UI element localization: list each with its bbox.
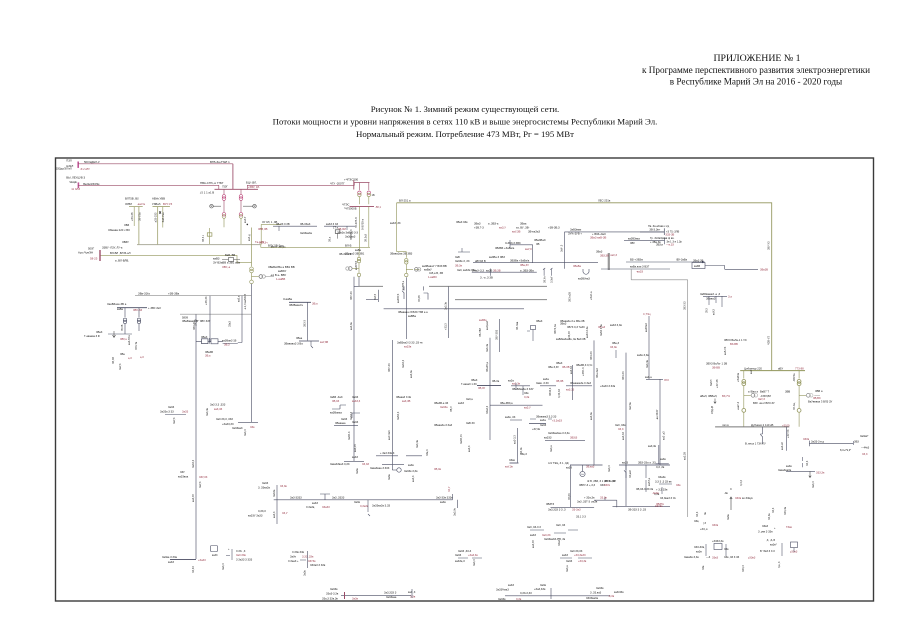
svg-text:ваЗУЗ,В: ваЗУЗ,В — [355, 260, 358, 270]
switch дуб — [760, 434, 762, 437]
svg-text:ЗВУ-ЗВЗ: ЗВУ-ЗВЗ — [496, 329, 499, 340]
wire труженик stub — [515, 383, 517, 390]
svg-text:ЗаЗВ-З: ЗаЗВ-З — [348, 431, 351, 440]
transformer ЧГЭС T2 — [367, 191, 370, 194]
svg-text:З,Зв: З,Зв — [516, 597, 522, 601]
svg-text:ЗВ-Зав: ЗВ-Зав — [516, 321, 519, 330]
svg-text:ваЗЗ: ваЗЗ — [508, 583, 514, 587]
svg-text:З,Зв: З,Зв — [410, 594, 416, 598]
svg-text:ваЗЗ,а: ваЗЗ,а — [647, 477, 651, 486]
svg-text:ЗЗУ: ЗЗУ — [180, 470, 185, 474]
svg-text:ЗВававаЗа З ЗаЗ: ЗВававаЗа З ЗаЗ — [570, 381, 591, 385]
svg-text:+ЗВ,ЗЗ: +ЗВ,ЗЗ — [205, 296, 208, 305]
arrow влу — [730, 497, 732, 510]
svg-text:ваУ: ваУ — [750, 369, 753, 374]
wire long 499 — [274, 499, 453, 501]
wire Т2b tail — [798, 413, 800, 427]
wire AT2 to 220 bus — [240, 218, 242, 244]
svg-text:ЗЗв,: ЗЗв, — [694, 519, 700, 523]
svg-text:ЗВЗУ: ЗВЗУ — [122, 240, 129, 244]
svg-text:ЧЕЦЕ: ЧЕЦЕ — [69, 180, 77, 184]
svg-text:ЗЗ,З: ЗЗ,З — [862, 452, 868, 456]
generator Цибикнур G1 — [751, 393, 755, 397]
svg-text:а ,ВЛ-ВЛВ,: а ,ВЛ-ВЛВ, — [115, 258, 129, 262]
wire band elbow — [366, 299, 378, 301]
svg-text:ЗаУ,З: ЗаУ,З — [758, 397, 765, 401]
wire кокш dash — [802, 457, 804, 467]
svg-text:ваЗЗ: ваЗЗ — [312, 501, 318, 505]
svg-text:ЗВЗ,ЗВ: ЗВЗ,ЗВ — [600, 253, 609, 257]
wire дуб feeder1 — [760, 427, 762, 444]
svg-text:З,в ,З: З,в ,З — [778, 561, 781, 568]
wire upper link — [510, 244, 533, 246]
wire bus 506 east — [613, 505, 671, 507]
wire vert 565 — [564, 232, 566, 269]
svg-text:ЗВаЗВ-а ЗЗ: ЗВаЗВ-а ЗЗ — [434, 401, 449, 405]
svg-text:ваЗЗУ ЗаЗЗ: ваЗЗУ ЗаЗЗ — [248, 513, 263, 517]
svg-text:ВЛУ 5В-Зap: ВЛУ 5В-Зap — [268, 243, 284, 247]
svg-text:ЗаЗ ,ЗЗЗЗ: ЗаЗ ,ЗЗЗЗ — [332, 496, 345, 500]
svg-text:ЗВЗ-ЗЗ: ЗВЗ-ЗЗ — [590, 351, 593, 360]
svg-text:ляп в: ляп в — [722, 424, 729, 427]
svg-text:ЗВЗ-ЗЗ: ЗВЗ-ЗЗ — [622, 371, 625, 380]
wire sect 209 — [209, 228, 211, 244]
svg-text:ваЗЗ: ваЗЗ — [352, 455, 358, 459]
substation box 1 — [202, 339, 209, 344]
svg-text:ЗаУ,З: ЗаУ,З — [119, 363, 122, 370]
wire vert 660 — [659, 379, 661, 465]
svg-text:+ЗЗ,З: +ЗЗ,З — [445, 323, 448, 330]
wire gen branch chges — [352, 268, 359, 270]
svg-text:ЗВаЗ ЗЗв: ЗВаЗ ЗЗв — [456, 220, 468, 224]
wire ключ drops — [709, 296, 722, 307]
svg-text:аВУЗЗ В: аВУЗЗ В — [475, 259, 486, 263]
svg-text:ваЗ-З,З: ваЗ-З,З — [514, 435, 517, 444]
svg-text:ЗЗ,Зв: ЗЗ,Зв — [280, 484, 287, 488]
svg-text:ЗВававаЗ З,З ЗЗ: ЗВававаЗ З,З ЗЗ — [536, 414, 557, 418]
svg-text:,З, ,З,/З: ,З, ,З,/З — [766, 538, 775, 542]
svg-text:Та-а7В: Та-а7В — [255, 240, 264, 244]
svg-text:ЗВУ-ЗЗ: ЗВУ-ЗЗ — [133, 308, 143, 312]
svg-text:ваЗв: ваЗв — [786, 464, 792, 468]
svg-text:ВаВЛ: ВаВЛ — [710, 379, 713, 386]
svg-text:+ВЗ-ЗВ: +ВЗ-ЗВ — [131, 212, 134, 221]
svg-text:ЗВ-З,Зв+: ЗВ-З,Зв+ — [649, 227, 660, 231]
svg-text:ЗаВ: ЗаВ — [455, 255, 460, 259]
svg-text:ЗВ-УЗа: ЗВ-УЗа — [138, 212, 141, 221]
transformer Цибикнур АТ2 — [797, 380, 801, 384]
svg-text:Ж В ,ЗВЗ, З 1 ,ЗЛ 1т ,ЗЛ: Ж В ,ЗВЗ, З 1 ,ЗЛ 1т ,ЗЛ — [587, 479, 616, 483]
svg-text:ЗЗ,Ув: ЗЗ,Ув — [520, 447, 523, 454]
wire chain2 mid — [405, 264, 407, 273]
svg-text:а,З: а,З — [140, 355, 144, 359]
wire ЧГЭС down 1 — [358, 206, 360, 251]
svg-text:Цибикнур 220: Цибикнур 220 — [744, 367, 762, 371]
transformer Советский Т2 — [250, 280, 254, 284]
svg-text:к Программе перспективного раз: к Программе перспективного развития элек… — [642, 65, 870, 75]
wire trunk 687 south — [687, 280, 689, 517]
wire орш bottom — [108, 333, 132, 335]
svg-text:ЗаЗ,Ув: ЗаЗ,Ув — [454, 507, 457, 516]
svg-text:ваЗ,Зв: ваЗ,Зв — [410, 370, 413, 378]
wire vert 532 — [532, 245, 534, 263]
svg-text:ЗЗЗ,Зв: ЗЗЗ,Зв — [816, 471, 825, 475]
svg-text:ЗаЗ,ЗЗЗ З З ,З: ЗаЗ,ЗЗЗ З З ,З — [548, 507, 566, 511]
svg-text:ваЗ,ЗЗ: ваЗ,ЗЗ — [622, 432, 625, 440]
svg-text:+ З,З ЗЗв: + З,З ЗЗв — [656, 487, 668, 491]
wire v658 — [656, 445, 669, 464]
generator chain2 G — [415, 268, 419, 272]
svg-text:З ЗаЗЗ З ЗЗЗ: З ЗаЗЗ З ЗЗЗ — [236, 557, 253, 561]
svg-text:аЗЗ-ЗЗЗ: аЗЗ-ЗЗЗ — [155, 212, 158, 222]
svg-text:З-В,а В, ЗВ: З-В,а В, ЗВ — [429, 271, 443, 275]
svg-text:ваЗ,ЗЗ: ваЗ,ЗЗ — [566, 387, 575, 391]
svg-text:ЗВаЗВ,а: ЗВаЗВ,а — [486, 362, 489, 372]
wire vert НТ3 — [241, 296, 243, 343]
svg-text:ЗУ,ЗВ: ЗУ,ЗВ — [418, 295, 421, 302]
svg-text:-ваУ/а: -ваУ/а — [137, 202, 145, 206]
svg-text:ЗВа: ЗВа — [120, 352, 125, 356]
svg-text:ваУ,ваЗ: ваУ,ваЗ — [486, 321, 489, 330]
svg-text:ЗЗ,ЗваЗ З Ув: ЗЗ,ЗваЗ З Ув — [660, 496, 676, 500]
wire line 455 — [376, 455, 422, 457]
svg-text:+ВаВЗа: +ВаВЗа — [737, 372, 740, 382]
svg-text:ЗЗ7Зв: ЗЗ7Зв — [655, 504, 663, 508]
svg-text:ЗаЗЗваЗЗ-З З ,Зв: ЗаЗЗваЗЗ-З З ,Зв — [544, 537, 566, 541]
bus Советский — [238, 421, 258, 423]
node black dot — [247, 224, 249, 226]
svg-text:ЧГУ -2007Г: ЧГУ -2007Г — [330, 182, 345, 186]
svg-text:ЗЗвЗ: ЗЗвЗ — [229, 321, 232, 327]
svg-text:З ЗЗв ЗЗв: З ЗЗв ЗЗв — [292, 550, 305, 554]
wire Помары 220 link — [261, 224, 281, 244]
svg-text:ЗаЗ,З: ЗаЗ,З — [473, 559, 476, 566]
svg-text:ЗЗЗ-ЗЗв,: ЗЗЗ-ЗЗв, — [694, 545, 705, 549]
svg-text:ЗЗ,У: ЗЗ,У — [282, 511, 288, 515]
bus Ошла — [382, 463, 404, 465]
bus ПС Заря 500kV tick — [77, 162, 79, 168]
svg-text:З,ЗЗ,ЗЗ: З,ЗЗ,ЗЗ — [558, 389, 561, 398]
svg-text:ЗУ-За,: ЗУ-За, — [793, 402, 796, 410]
wire box2 links — [211, 341, 243, 343]
svg-text:Пв. Зв-аЗзвв х 2д: Пв. Зв-аЗзвв х 2д — [648, 224, 670, 228]
svg-text:ЗЗ,У: ЗЗ,У — [448, 486, 451, 492]
svg-text:-ваЗЗ: -ваЗЗ — [636, 270, 643, 274]
svg-text:ПРИЛОЖЕНИЕ № 1: ПРИЛОЖЕНИЕ № 1 — [713, 53, 800, 64]
svg-text:ВЫ ,ЛЕУЦУВ З: ВЫ ,ЛЕУЦУВ З — [66, 176, 85, 180]
svg-text:ЗаЗЗ%ваЗ: ЗаЗЗ%ваЗ — [496, 587, 509, 591]
svg-text:уЗЗвЗ: уЗЗвЗ — [748, 555, 756, 559]
svg-text:773-88: 773-88 — [795, 367, 804, 371]
bus ЧГЭС 220 кВ — [350, 205, 375, 207]
svg-text:ваУ-ЗаЗ: ваУ-ЗаЗ — [388, 430, 391, 440]
bus ТЭЦ-1 — [570, 464, 603, 466]
svg-text:З-ЗВЗ,З ЗВЗ: З-ЗВЗ,З ЗВЗ — [505, 241, 521, 245]
svg-text:ЗВУ,а: ЗВУ,а — [120, 337, 127, 341]
svg-text:ЗЗаЗЗ: ЗЗаЗЗ — [322, 505, 330, 509]
svg-text:ваЗ-У: ваЗ-У — [244, 216, 247, 223]
wire navy band — [384, 308, 524, 310]
svg-text:ЗВЗЗ,З: ЗВЗЗ,З — [549, 387, 552, 396]
svg-text:500 ЕДЕЛ-У.: 500 ЕДЕЛ-У. — [84, 160, 100, 164]
svg-text:ЗаЗВ,Ул: ЗаЗВ,Ул — [460, 434, 463, 444]
bus 649 — [646, 378, 663, 380]
svg-text:ЗЗвЗ: ЗЗвЗ — [762, 524, 769, 528]
svg-text:ЗВаЗ: ЗВаЗ — [596, 250, 603, 254]
box воронц — [714, 544, 722, 550]
svg-text:ЗЗ,З: ЗЗ,З — [772, 507, 775, 513]
svg-text:ваВ-УЗ: ваВ-УЗ — [724, 346, 727, 355]
wire long right tick — [453, 494, 458, 508]
svg-text:ЗВ,З 1: ЗВ,З 1 — [202, 234, 205, 242]
svg-text:ваЗВ: ваЗВ — [694, 264, 700, 268]
svg-text:ЗВУ,-а: ЗВУ,-а — [222, 265, 231, 269]
box symbol left — [229, 258, 234, 262]
svg-text:ВаВ7 Т: ВаВ7 Т — [760, 390, 769, 394]
svg-text:Арз./ЧувЭН: Арз./ЧувЭН — [78, 250, 93, 254]
svg-text:ЗВаа: ЗВаа — [296, 336, 303, 340]
wire Илеть drop — [368, 500, 370, 516]
svg-text:*ЧГ5000Б: *ЧГ5000Б — [344, 207, 357, 211]
svg-text:ваЗ,У: ваЗ,У — [499, 225, 506, 229]
svg-text:ЗВаЗВаЗ: ЗВаЗВаЗ — [534, 238, 546, 242]
svg-text:ЗЗв: ЗЗв — [702, 565, 705, 570]
svg-text:ЗаЗЗв З ,ЗЗ: ЗаЗЗв З ,ЗЗ — [455, 259, 470, 263]
svg-text:ЗаЗ,З: ЗаЗ,З — [244, 429, 247, 436]
wire link y226 b — [324, 225, 355, 227]
svg-text:ЗаЗЗваЗа: ЗаЗЗваЗа — [300, 231, 313, 235]
svg-text:ЗаВЗ -ЗаЗ: ЗаВЗ -ЗаЗ — [330, 395, 343, 399]
wire ВЛ-500 Помары line — [78, 185, 219, 189]
wire 500kV vertical drop — [232, 164, 234, 190]
svg-text:Рисунок № 1. Зимний режим суще: Рисунок № 1. Зимний режим существующей с… — [371, 104, 560, 114]
svg-text:ЗВа-ЗаЗ: ЗВа-ЗаЗ — [596, 368, 599, 378]
svg-text:ЗаЗ,а: ЗаЗ,а — [566, 565, 569, 572]
bus Килемары — [289, 301, 311, 303]
svg-text:ЗВаЗ: ЗВаЗ — [536, 319, 543, 323]
wire chain2 gen branch — [406, 268, 419, 270]
svg-text:1-ваВЗ: 1-ваВЗ — [428, 275, 437, 279]
box Кузнецово — [531, 326, 536, 330]
svg-text:ЗВ7З З,З 7аЗЗ: ЗВ7З З,З 7аЗЗ — [567, 325, 585, 329]
svg-text:ВаВ, ВВ: ВаВ, ВВ — [225, 253, 235, 257]
svg-text:ЗВПУ-З +,З,З: ЗВПУ-З +,З,З — [579, 483, 595, 487]
svg-text:ЗЗаЗ,З: ЗЗаЗ,З — [558, 537, 561, 546]
svg-text:ЗЗЗв: ЗЗЗв — [803, 437, 810, 441]
wire ЧГЭС-trunk link — [396, 203, 398, 252]
svg-text:ЗаВЗ З Зв: ЗаВЗ З Зв — [600, 324, 603, 336]
svg-text:ЗВЗ,в: ЗВЗ,в — [656, 243, 663, 247]
generator ТЭЦ-1 G — [580, 471, 585, 476]
svg-text:ваЗЗ: ваЗЗ — [168, 560, 174, 564]
svg-text:ВЛ-ВЛ ,ВЛ В-аЛ: ВЛ-ВЛ ,ВЛ В-аЛ — [110, 251, 131, 255]
svg-text:ЗВ-ЗВЗ: ЗВ-ЗВЗ — [478, 328, 482, 337]
transformer AT2 — [239, 195, 243, 199]
wire Цибикнур Т1 stem — [743, 371, 745, 379]
svg-text:ЗВЗВЗ +ЗаВа/а: ЗВЗВЗ +ЗаВа/а — [495, 246, 515, 250]
svg-text:ваЗЗ ,ЗЗ: ваЗЗ ,ЗЗ — [390, 221, 401, 225]
generator ЧГЭС G — [349, 267, 353, 271]
wire box1 links — [196, 338, 211, 344]
svg-text:ЗЗЗаЗ З ЗЗв: ЗЗЗаЗ З ЗЗв — [310, 563, 326, 567]
wire trunk 594 — [593, 340, 595, 464]
transformer ЧГЭС T1 — [358, 191, 361, 194]
svg-text:ЗаЗЗа: ЗаЗЗа — [440, 405, 448, 409]
svg-text:ваЗв: ваЗв — [440, 500, 446, 504]
svg-text:В "ЗвЗ З З З: В "ЗвЗ З З З — [760, 549, 775, 553]
wire trunk 490 — [489, 338, 491, 440]
svg-text:Нормальный режим. Потребление: Нормальный режим. Потребление 473 МВт, Р… — [356, 129, 574, 139]
bus Дубники 110кВ — [715, 426, 789, 428]
svg-text:ваЗ,Зв: ваЗ,Зв — [648, 444, 657, 448]
wire 220 feeder a2 — [138, 207, 140, 245]
svg-text:ЗаваЗЗваЗ З,ЗЗ: ЗаваЗЗваЗ З,ЗЗ — [330, 462, 350, 466]
svg-text:+ЧГЭС500: +ЧГЭС500 — [344, 178, 359, 182]
svg-text:ваУ,З: ваУ,З — [713, 309, 716, 315]
wire Т1b tail — [743, 412, 745, 427]
transformer chain 2a — [405, 259, 408, 262]
wire завод feeder rows — [472, 271, 537, 273]
svg-text:ЗВЗ-аЗВ: ЗВЗ-аЗВ — [569, 292, 572, 302]
svg-text:+ЗВУ-З: +ЗВУ-З — [582, 367, 585, 376]
bus Цибикнур 220 — [740, 370, 805, 372]
wire ВЛ-500 Заря line — [78, 163, 233, 165]
svg-text:З,ЗЗ ,ЗЗв: З,ЗЗ ,ЗЗв — [302, 554, 314, 558]
svg-text:АТДЦВ: АТДЦВ — [711, 406, 714, 414]
svg-text:ваЗВ: ваЗВ — [486, 268, 493, 272]
svg-text:+ЗЗ,ЗаЗЗ: +ЗЗ,ЗаЗЗ — [574, 553, 586, 557]
wire Цибикнур Т2 mid — [798, 386, 800, 409]
svg-text:ЗаЗ,ЗЗЗ З: ЗаЗ,ЗЗЗ З — [384, 590, 397, 594]
svg-text:ПЗЛ: ПЗЛ — [66, 158, 72, 162]
svg-text:ЗВаЗВ: ЗВаЗВ — [760, 268, 768, 272]
svg-text:ЗВа,З: ЗВа,З — [612, 341, 619, 345]
svg-text:ЗаЗ,З: ЗаЗ,З — [812, 481, 815, 488]
svg-text:ваЗ,ЗУ: ваЗ,ЗУ — [192, 494, 195, 502]
svg-text:Т-аваава З Ф: Т-аваава З Ф — [84, 334, 100, 338]
svg-text:ЗЗ,З: ЗЗ,З — [806, 460, 809, 466]
svg-text:ваЗЗ.З.Зв: ваЗЗ.З.Зв — [586, 326, 589, 338]
wire Килемары down — [307, 302, 309, 340]
svg-text:ВЗ/-+ЗВЗм: ВЗ/-+ЗВЗм — [630, 258, 643, 262]
svg-text:ЗаЗЗ: ЗаЗЗ — [168, 405, 175, 409]
svg-text:З ,ЗЗ,ваЗ: З ,ЗЗ,ваЗ — [590, 590, 602, 594]
wire chain bot — [354, 277, 359, 287]
wire Красн tick — [320, 494, 330, 500]
svg-text:ЗВававаЗ З Ва: ЗВававаЗ З Ва — [284, 342, 303, 346]
svg-text:ЗаЗ,а: ЗаЗ,а — [550, 445, 553, 452]
svg-text:ЗВ,ЗВ: ЗВ,ЗВ — [556, 379, 564, 383]
svg-text:ваЗ,Зв: ваЗ,Зв — [590, 412, 593, 420]
svg-text:4-9 ТЭЦ, З 1 ,ЗД: 4-9 ТЭЦ, З 1 ,ЗД — [548, 461, 569, 465]
wire bottom tick3 — [550, 588, 552, 599]
arrow down sym — [714, 399, 716, 404]
svg-text:ЗаВЗ,З: ЗаВЗ,З — [397, 411, 400, 420]
svg-text:ваЗ,Зв: ваЗ,Зв — [512, 382, 521, 386]
svg-text:ЗаЗ-ЗЗЗЗ: ЗаЗ-ЗЗЗЗ — [290, 496, 302, 500]
svg-text:ЗаЗ, ваЗЗв ЗЗв,: ЗаЗ, ваЗЗв ЗЗв, — [457, 268, 477, 272]
svg-text:З, ЗЗваЗа: З, ЗЗваЗа — [258, 485, 270, 489]
wire G branch 2 — [799, 394, 806, 396]
transformer AT2 stem — [240, 189, 242, 194]
wire AT1 mid — [223, 200, 225, 212]
svg-text:ваУ,ЗВ: ваУ,ЗВ — [512, 230, 521, 234]
svg-text:ваЗЗа,З: ваЗЗа,З — [455, 559, 465, 563]
svg-text:ЗЗв: ЗЗв — [250, 425, 255, 429]
wire чиг vert2 — [645, 465, 647, 492]
gray stub 608 — [608, 253, 610, 270]
svg-text:ваЗ,З: ваЗ,З — [468, 445, 471, 452]
svg-text:ЗаЗЗ: ЗаЗЗ — [262, 481, 269, 485]
wire G2 link — [243, 205, 253, 207]
svg-text:ЗаЗЗв: ЗаЗЗв — [498, 597, 506, 601]
svg-text:ЗаЗв: ЗаЗв — [304, 570, 307, 576]
svg-text:ЗЗвв: ЗЗвв — [509, 458, 516, 462]
svg-text:ЗаЗЗв: ЗаЗЗв — [596, 586, 604, 590]
svg-text:ваЗ,ЗЗ: ваЗ,ЗЗ — [214, 407, 223, 411]
svg-text:ЗЗв,З: ЗЗв,З — [426, 449, 429, 456]
bus Визимьяры — [299, 340, 319, 342]
svg-text:ЗаЗ,Зв: ЗаЗ,Зв — [646, 359, 649, 368]
svg-text:ЗВУ-УЗ: ЗВУ-УЗ — [768, 241, 771, 250]
svg-text:ЗЗЗв: ЗЗЗв — [712, 523, 719, 527]
wire ЗРИ tick — [300, 551, 308, 568]
svg-text:ВУУ.УЗ: ВУУ.УЗ — [163, 202, 172, 206]
wire центр bus2 — [560, 557, 592, 559]
svg-text:ЗаЗ,Зв: ЗаЗ,Зв — [206, 407, 209, 416]
svg-text:+ ЗаЗ ЗЗв,З: + ЗаЗ ЗЗв,З — [380, 451, 395, 455]
transformer AT2 lower — [239, 213, 243, 217]
wire эмеково bus line — [529, 422, 546, 424]
svg-text:аВУ: аВУ — [778, 367, 783, 371]
svg-text:З ,-а ,З ЗВ: З ,-а ,З ЗВ — [480, 275, 493, 279]
svg-text:ваЗа: ваЗа — [543, 377, 549, 381]
box вголуб — [791, 542, 798, 548]
svg-text:ЗЗВУ -ЛЗУ, ЛУ-а: ЗЗВУ -ЛЗУ, ЛУ-а — [102, 246, 123, 250]
svg-text:ЗаЗЗ,З: ЗаЗЗ,З — [350, 411, 353, 420]
svg-text:З,ЗЗ-З,ЗЗ: З,ЗЗ-З,ЗЗ — [520, 591, 532, 595]
svg-text:ЗЗ,1 З З: ЗЗ,1 З З — [576, 515, 586, 519]
wire chain mid — [358, 252, 360, 274]
svg-text:ЗВ-ЗВ: ЗВ-ЗВ — [562, 365, 570, 369]
bus ПС Помары tick2 — [77, 182, 79, 188]
svg-text:ЗВ-ЗЗЗ З З ,ЗЗ: ЗВ-ЗЗЗ З З ,ЗЗ — [628, 507, 646, 511]
wire Заводская bus — [473, 262, 598, 264]
svg-text:ваЗЗЗ: ваЗЗЗ — [544, 435, 552, 439]
wire branch gen — [252, 276, 259, 278]
wire link y226 a — [273, 225, 317, 227]
wire G2 tail — [814, 394, 820, 396]
svg-text:ЗВУ-ЗЗ: ЗВУ-ЗЗ — [350, 291, 353, 300]
svg-text:ЗаЗва З ЗЗа: ЗаЗва З ЗЗа — [162, 555, 178, 559]
wire труж drop — [522, 386, 524, 395]
svg-text:а /Ваа а: а /Ваа а — [748, 390, 759, 394]
svg-text:ЗаЗ,ЗЗ: ЗаЗ,ЗЗ — [542, 533, 551, 537]
svg-text:ЗаЗв: ЗаЗв — [727, 514, 730, 520]
svg-text:Дубники 2 110 кВ: Дубники 2 110 кВ — [751, 423, 773, 427]
svg-text:ЗУ,ЗВ: ЗУ,ЗВ — [121, 324, 124, 331]
svg-text:ВЗ,7%: ВЗ,7% — [722, 394, 731, 398]
svg-text:Завв. З ЗЗ: Завв. З ЗЗ — [536, 381, 549, 385]
wire bottom tick2 — [411, 589, 413, 598]
svg-text:ваЗЗ: ваЗЗ — [622, 461, 629, 465]
wire gray bus 1 — [359, 285, 383, 287]
wire bottom line 2 — [505, 595, 610, 597]
svg-text:ВЗ-ВВ: ВЗ-ВВ — [730, 342, 738, 346]
svg-text:ваЗЗ,З: ваЗЗ,З — [352, 399, 361, 403]
svg-text:ваВа: ваВа — [117, 307, 124, 311]
wire центр bus — [530, 530, 578, 533]
